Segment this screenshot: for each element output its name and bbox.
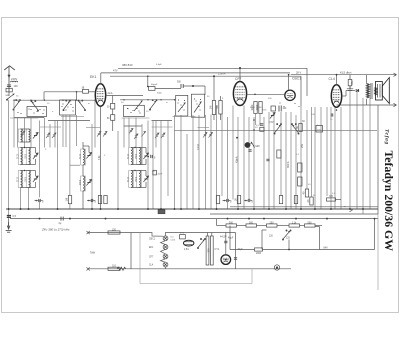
wire	[145, 148, 147, 154]
wire	[147, 76, 149, 86]
padding capacitor with arrow	[46, 133, 50, 138]
wire	[213, 76, 215, 100]
trimmer arrow	[142, 131, 146, 136]
wire vertical	[237, 117, 239, 209]
coil	[18, 171, 23, 188]
wire vertical	[314, 107, 316, 209]
band switch contact	[78, 100, 86, 111]
svg-text:47V: 47V	[113, 69, 118, 73]
svg-text:CBC1: CBC1	[292, 77, 301, 81]
wire	[145, 182, 147, 188]
band switch contact	[13, 100, 21, 111]
wire	[230, 249, 255, 251]
svg-text:2,5A: 2,5A	[184, 248, 189, 251]
PSU bottom wire	[140, 268, 291, 270]
junction	[330, 208, 332, 210]
svg-text:500: 500	[229, 221, 234, 224]
grid capacitor	[279, 106, 281, 112]
svg-text:EK1: EK1	[149, 247, 154, 249]
wire vertical	[57, 121, 59, 210]
wire	[257, 225, 267, 227]
switch contact	[33, 112, 34, 113]
wire	[145, 159, 147, 165]
coil top wire	[21, 147, 29, 149]
antenna coil	[11, 81, 18, 82]
svg-text:~: ~	[344, 204, 346, 208]
resistor	[226, 224, 237, 227]
capacitor	[224, 241, 227, 243]
resistor	[289, 224, 300, 227]
svg-text:1500: 1500	[136, 176, 138, 182]
antenna switch	[6, 94, 14, 101]
wire vertical	[76, 115, 78, 146]
padding capacitor with arrow	[52, 133, 56, 138]
junction	[253, 119, 255, 121]
switch contact	[196, 103, 197, 104]
resistor	[219, 101, 222, 115]
svg-text:3B: 3B	[82, 88, 85, 90]
tone capacitor 20n	[347, 75, 353, 91]
wire vertical	[221, 114, 223, 196]
coil top wire	[21, 128, 29, 130]
wire vertical	[273, 115, 275, 210]
wire vertical	[216, 106, 218, 210]
PSU top wire	[172, 232, 236, 234]
wire vertical	[227, 117, 229, 209]
capacitor	[234, 258, 237, 260]
wire	[35, 171, 37, 177]
wire vertical	[205, 115, 207, 209]
fuse box	[6, 88, 12, 92]
resistor	[305, 224, 316, 227]
svg-text:220: 220	[112, 228, 117, 231]
junction	[134, 170, 135, 171]
svg-text:50μμF: 50μμF	[151, 84, 158, 86]
junction	[253, 208, 255, 210]
coil	[137, 148, 142, 165]
heater wire	[161, 259, 166, 262]
band switch contact	[274, 124, 282, 135]
switch contact	[184, 100, 185, 101]
wire vertical	[362, 98, 364, 214]
coil	[137, 171, 142, 188]
wire	[145, 171, 147, 177]
trimmer capacitor	[86, 153, 91, 159]
anode bus 2	[101, 72, 290, 74]
tube heater	[163, 262, 168, 267]
junction	[174, 208, 176, 210]
svg-text:700: 700	[215, 105, 219, 110]
svg-text:2mA: 2mA	[108, 92, 113, 95]
switch contact	[130, 112, 131, 113]
switch contact	[128, 108, 129, 109]
svg-text:2,0mA: 2,0mA	[218, 72, 226, 76]
svg-text:Tefag: Tefag	[384, 129, 390, 145]
grid wire to EK1	[44, 91, 83, 93]
wire	[76, 92, 78, 100]
coil bottom wire	[21, 141, 29, 143]
wire vertical	[285, 112, 287, 209]
small box	[298, 163, 302, 172]
wire	[43, 92, 45, 100]
output transformer primary	[367, 84, 370, 98]
junction	[147, 208, 149, 210]
grid wire EK1 to switch	[106, 95, 143, 97]
capacitor	[151, 155, 153, 158]
heater wire	[161, 241, 166, 245]
wire jog	[198, 127, 210, 129]
small box	[298, 177, 302, 186]
svg-text:CF7: CF7	[235, 77, 242, 81]
junction	[180, 208, 182, 210]
wire	[261, 230, 263, 250]
rectifier tube CY1	[221, 255, 231, 265]
wire vertical	[13, 100, 15, 147]
junction	[239, 67, 241, 69]
resistor	[255, 248, 263, 251]
wire vertical	[69, 204, 71, 209]
wire	[124, 125, 142, 127]
anode supply bus	[118, 67, 307, 69]
wire	[237, 225, 247, 227]
switch contact	[44, 110, 45, 111]
svg-text:1500: 1500	[25, 176, 27, 182]
switch section box	[27, 107, 47, 117]
trimmer capacitor	[143, 176, 148, 182]
grid wire CF7 to CBC1	[247, 93, 285, 95]
wire jog	[40, 126, 61, 128]
junction	[362, 208, 364, 210]
junction	[300, 208, 302, 210]
junction	[75, 100, 76, 101]
wire vertical	[128, 118, 130, 148]
switch contact	[39, 109, 40, 110]
tube CL4	[331, 85, 341, 107]
padding capacitor with arrow	[203, 132, 207, 137]
phone jack	[274, 265, 279, 270]
svg-text:40μF: 40μF	[228, 238, 234, 240]
wire vertical	[49, 124, 51, 148]
svg-text:250: 250	[270, 221, 275, 224]
wire	[229, 226, 231, 250]
coil	[129, 148, 134, 165]
wire	[366, 99, 368, 105]
padding capacitor with arrow	[134, 134, 138, 139]
padding capacitor with arrow	[209, 132, 213, 137]
mains terminal	[87, 231, 90, 234]
junction	[160, 99, 161, 100]
wire	[306, 68, 308, 96]
anode wire CBC1	[288, 75, 290, 91]
wire	[342, 95, 346, 97]
switch row bottom wire	[14, 117, 44, 119]
trimmer capacitor	[33, 176, 38, 182]
wire	[82, 142, 84, 149]
switch wiper	[134, 101, 143, 112]
padding capacitor with arrow	[155, 133, 159, 138]
resistor	[210, 236, 213, 265]
antenna	[4, 66, 15, 93]
resistor	[108, 231, 120, 234]
svg-text:4,5V: 4,5V	[269, 121, 274, 124]
junction	[117, 208, 119, 210]
coil top wire	[131, 170, 139, 172]
wire vertical	[311, 107, 313, 197]
svg-text:1 MΩ: 1 MΩ	[253, 144, 260, 148]
junction	[192, 85, 194, 87]
wire vertical	[54, 121, 56, 148]
resistor	[246, 224, 257, 227]
output return bus	[337, 104, 397, 106]
coil	[18, 129, 23, 142]
wire vertical	[147, 121, 149, 210]
wire vertical	[65, 115, 67, 147]
wire	[217, 225, 227, 227]
wire vertical	[295, 115, 297, 209]
wire vertical	[198, 115, 200, 209]
junction	[39, 218, 41, 220]
enclosure line	[251, 269, 253, 284]
switch wiper	[178, 103, 186, 113]
wire	[155, 87, 181, 89]
junction	[24, 147, 25, 148]
wire vertical	[160, 121, 162, 210]
trimmer capacitor	[33, 153, 38, 159]
wire	[204, 86, 206, 95]
wire	[349, 74, 351, 76]
svg-text:41mA: 41mA	[236, 156, 239, 163]
junction	[224, 200, 226, 202]
svg-text:2000: 2000	[257, 107, 263, 109]
fuse zigzag	[117, 267, 126, 270]
junction	[263, 218, 265, 220]
tube heater	[163, 245, 168, 250]
wire vertical	[300, 106, 302, 209]
coil	[26, 148, 31, 165]
resistor	[212, 101, 215, 115]
tube heater	[163, 236, 168, 241]
junction	[69, 218, 71, 220]
coupling capacitor out	[356, 89, 358, 92]
wire	[139, 170, 146, 172]
switch contact	[299, 106, 300, 107]
junction	[314, 208, 316, 210]
wire	[250, 200, 252, 202]
enclosure line	[139, 233, 141, 284]
switch contact	[30, 109, 31, 110]
capacitor	[331, 113, 333, 116]
band switch contact	[291, 124, 299, 135]
wire vertical	[306, 110, 308, 189]
wire	[8, 92, 10, 96]
wire	[139, 164, 146, 166]
tube heater	[163, 254, 168, 259]
junction	[123, 99, 124, 100]
svg-text:Tefadyn 200/36 GW: Tefadyn 200/36 GW	[382, 151, 396, 252]
mains terminal	[87, 267, 90, 270]
svg-text:3000: 3000	[250, 107, 256, 109]
switch contact	[127, 108, 128, 109]
switch contact	[37, 111, 38, 112]
resistor	[327, 198, 336, 201]
coil top wire	[131, 147, 139, 149]
coil	[81, 176, 86, 191]
wire vertical	[326, 107, 328, 196]
wire	[88, 91, 95, 93]
wire vertical	[248, 117, 250, 200]
trimmer capacitor	[86, 180, 91, 186]
svg-text:3112: 3112	[128, 153, 130, 159]
wire vertical	[39, 121, 41, 198]
anode wire CF7	[239, 68, 241, 82]
svg-text:100: 100	[14, 85, 19, 88]
junction	[245, 200, 247, 202]
component box	[260, 127, 264, 131]
junction	[227, 218, 229, 220]
switch row top wire	[14, 99, 95, 101]
resistor	[108, 267, 120, 270]
grid capacitor 50uuF	[149, 87, 156, 91]
fold line	[377, 214, 379, 290]
resistor	[259, 102, 262, 114]
capacitor	[7, 85, 11, 87]
coil bottom wire	[21, 164, 29, 166]
junction	[44, 100, 45, 101]
switch contact	[72, 110, 73, 111]
svg-text:3112: 3112	[17, 176, 19, 182]
wire vertical	[253, 117, 255, 209]
resistor	[206, 236, 209, 265]
grid cap EK1	[83, 89, 89, 93]
svg-text:45nF: 45nF	[158, 174, 163, 176]
potentiometer	[245, 142, 255, 148]
wire	[82, 191, 84, 209]
wire	[315, 225, 322, 227]
wire	[35, 200, 39, 202]
wire	[225, 233, 227, 255]
wire vertical	[369, 98, 371, 209]
junction	[336, 109, 338, 111]
wire	[220, 96, 222, 101]
capacitor	[248, 150, 251, 152]
svg-text:380 843: 380 843	[122, 63, 133, 67]
wire vertical	[232, 106, 234, 200]
wire	[345, 91, 347, 97]
wire vertical	[141, 124, 143, 165]
svg-text:EK1: EK1	[90, 75, 97, 79]
wire vertical	[330, 107, 332, 209]
svg-text:TaW: TaW	[90, 252, 96, 255]
wire	[88, 146, 90, 153]
wire vertical	[39, 200, 41, 209]
wire jog	[173, 116, 196, 118]
switch row top wire	[120, 99, 176, 101]
junction	[216, 208, 218, 210]
wire vertical	[320, 107, 322, 209]
svg-text:2000: 2000	[256, 253, 262, 255]
svg-text:ZFu 380 (u.173) kHz: ZFu 380 (u.173) kHz	[41, 228, 70, 232]
junction	[57, 208, 59, 210]
wire vertical	[243, 106, 245, 210]
band switch contact	[149, 100, 157, 111]
coil	[129, 171, 134, 188]
wire	[112, 120, 114, 131]
wire	[277, 225, 289, 227]
heater wire	[161, 249, 166, 254]
wire vertical	[174, 115, 176, 209]
wire	[211, 233, 213, 237]
resistor	[237, 196, 240, 204]
junction	[28, 208, 30, 210]
svg-text:240V: 240V	[11, 77, 17, 81]
switch section box	[124, 105, 145, 116]
resistor	[267, 224, 278, 227]
wire	[139, 147, 146, 149]
switch contact	[284, 106, 285, 107]
wire vertical	[69, 115, 71, 196]
wire vertical	[290, 112, 292, 209]
junction	[357, 90, 359, 92]
switch contact	[200, 99, 201, 100]
resistor	[254, 102, 257, 114]
coil	[81, 149, 86, 165]
padding capacitor with arrow	[129, 128, 133, 133]
switch contact	[280, 103, 281, 104]
switch contact	[133, 110, 134, 111]
switch contact	[70, 104, 71, 105]
wire	[263, 249, 375, 251]
coil bottom wire	[21, 187, 29, 189]
svg-text:84V: 84V	[324, 246, 329, 249]
right edge wire	[377, 105, 379, 214]
wire	[223, 200, 227, 202]
switch row bottom wire	[152, 120, 173, 122]
wire	[229, 200, 231, 202]
dial lamp	[180, 235, 186, 239]
wire vertical	[210, 115, 212, 210]
switch contact	[182, 107, 183, 108]
switch contact	[199, 106, 200, 107]
bus 3	[10, 218, 378, 220]
wire jog	[152, 126, 173, 128]
junction	[147, 75, 149, 77]
wire vertical	[24, 118, 26, 148]
svg-text:110: 110	[112, 265, 116, 268]
svg-text:200: 200	[206, 248, 210, 253]
component box 100	[271, 106, 275, 111]
wire vertical	[8, 100, 10, 219]
ballast tube	[184, 240, 194, 246]
switch contact	[62, 106, 63, 107]
wire vertical	[192, 115, 194, 209]
svg-text:CY1: CY1	[215, 248, 220, 251]
svg-text:1,1k: 1,1k	[292, 221, 297, 224]
resistor	[299, 124, 302, 132]
junction	[236, 137, 238, 139]
svg-text:C1/4: C1/4	[171, 240, 176, 242]
output terminal	[394, 73, 397, 76]
wire	[300, 76, 302, 106]
wire vertical	[356, 91, 358, 209]
wire vertical	[20, 188, 22, 210]
svg-text:0,5: 0,5	[13, 215, 17, 218]
padding capacitor with arrow	[161, 133, 165, 138]
AVC line	[175, 129, 378, 131]
chassis bus	[6, 208, 378, 210]
trimmer capacitor	[270, 113, 275, 119]
trimmer capacitor	[33, 133, 38, 139]
wire vertical	[334, 107, 336, 209]
